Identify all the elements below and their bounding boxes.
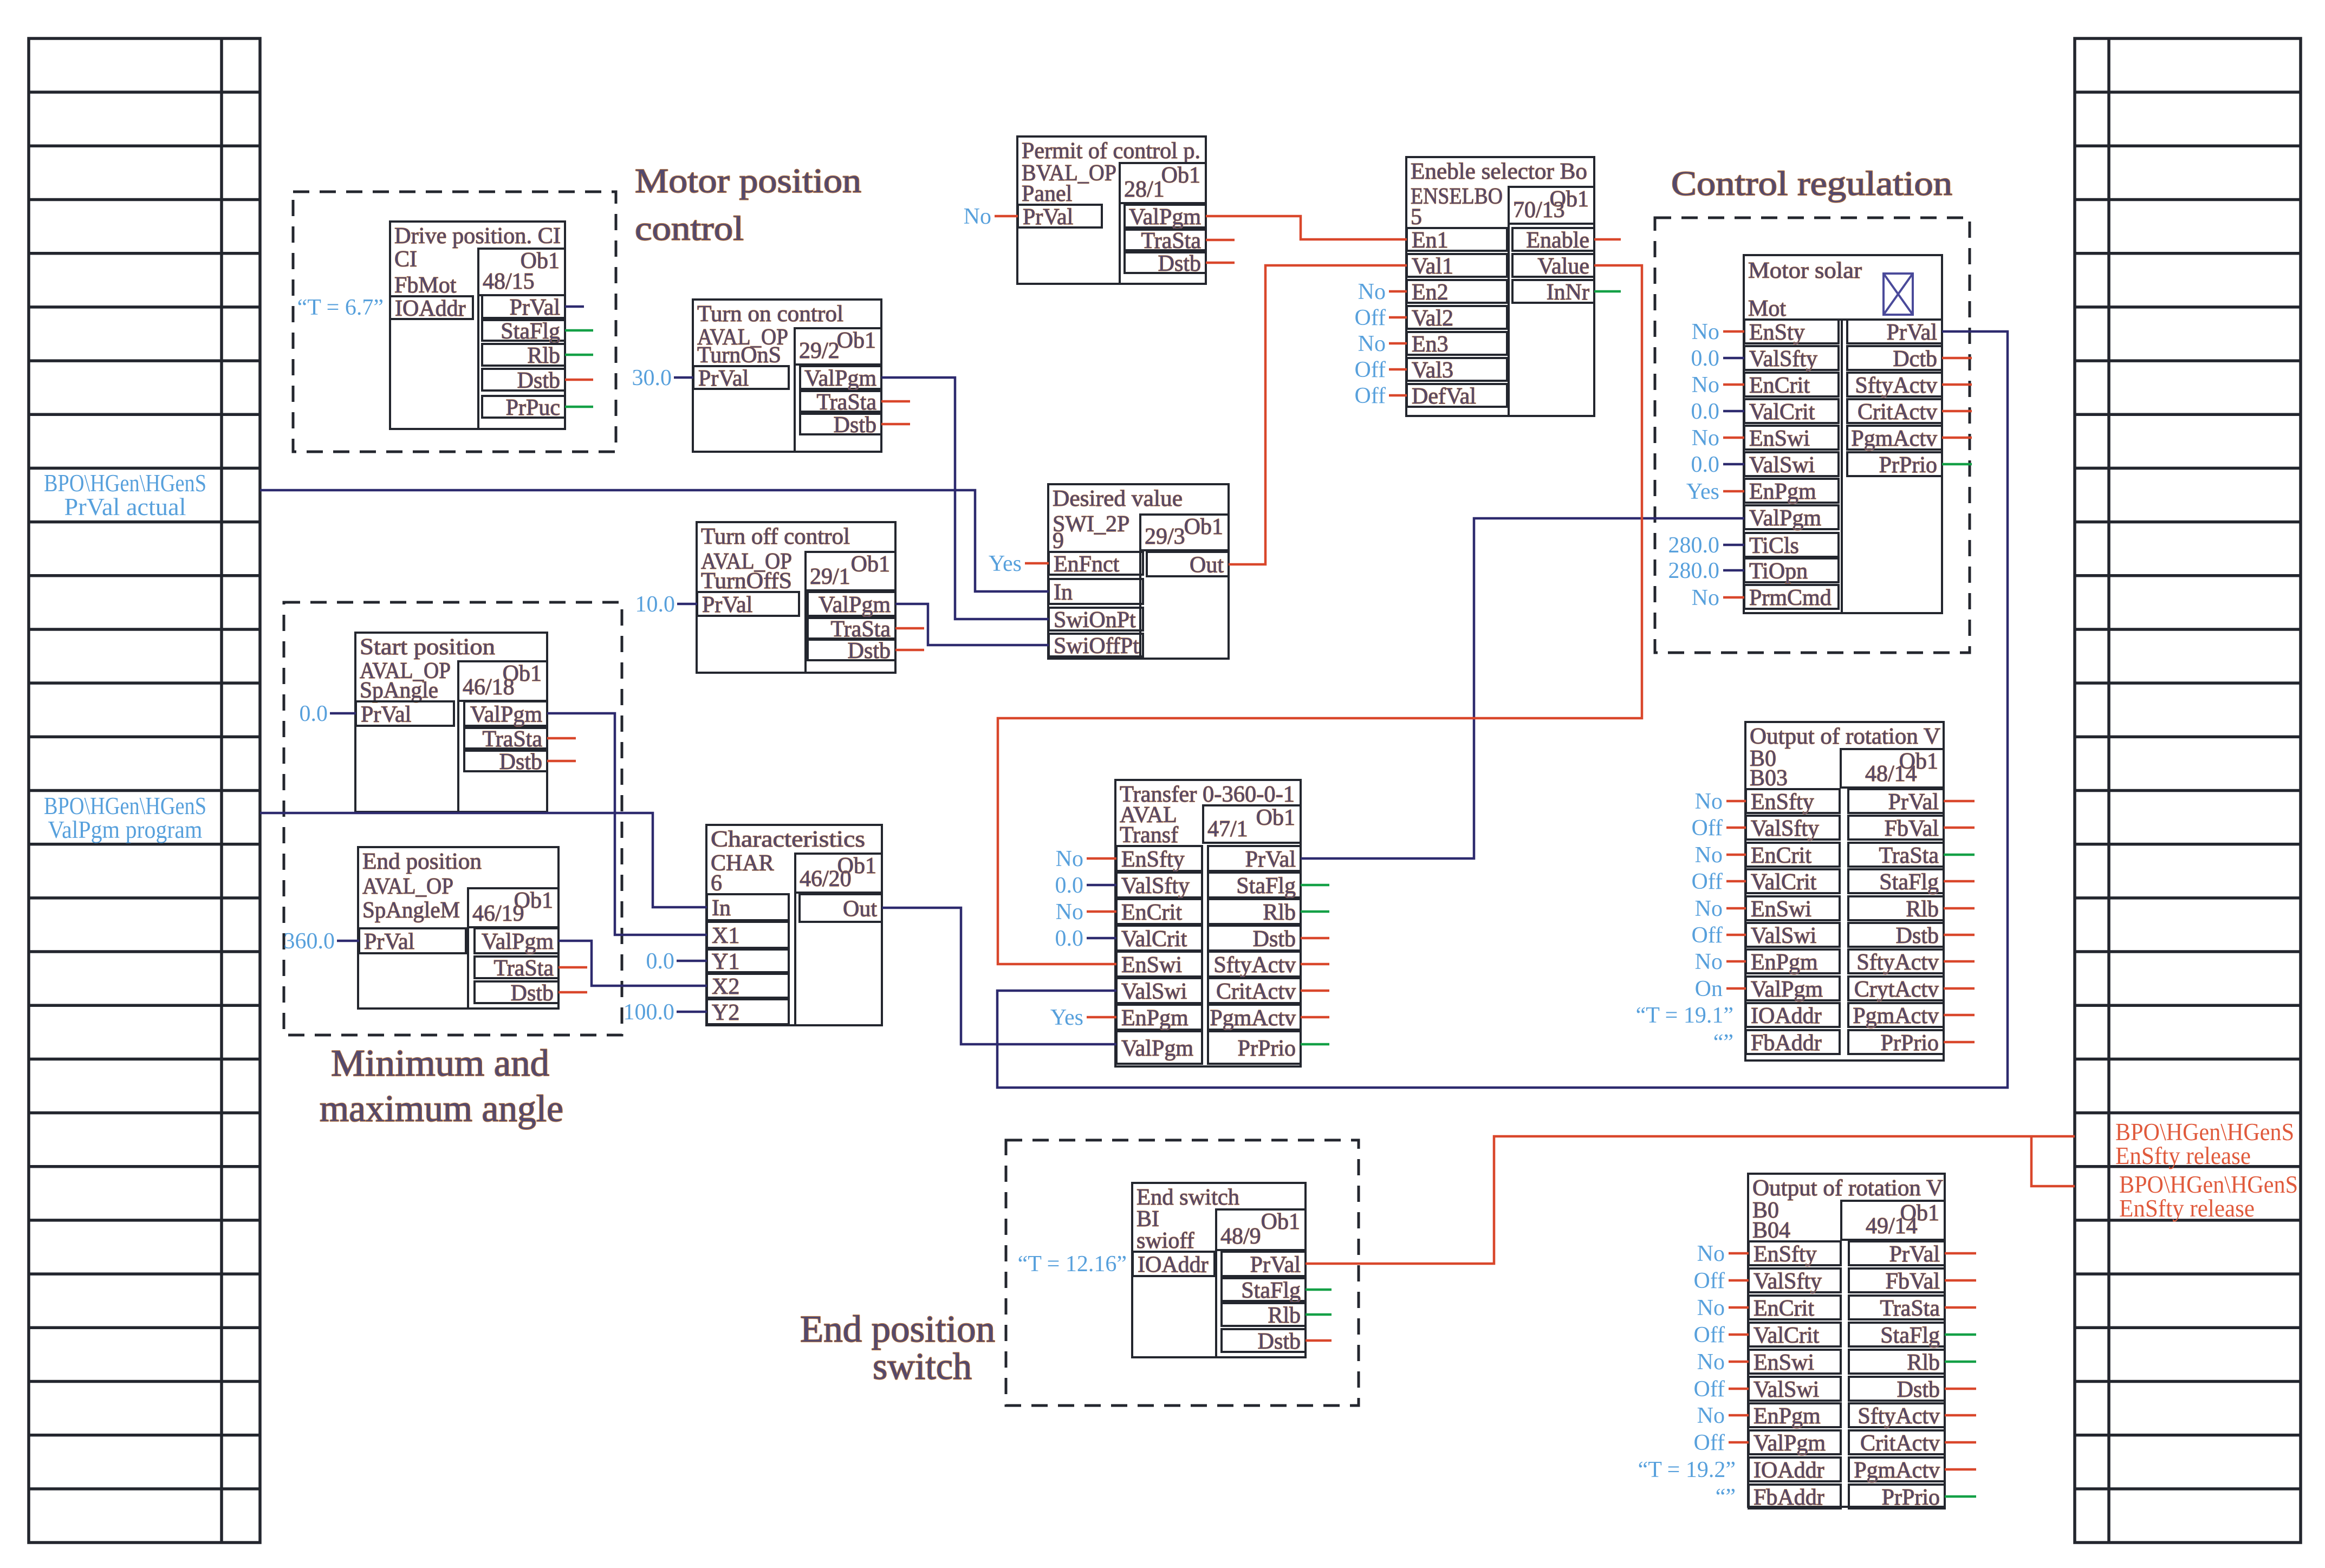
svg-text:IOAddr: IOAddr xyxy=(395,296,466,321)
svg-text:Ob1: Ob1 xyxy=(851,552,890,577)
svg-text:9: 9 xyxy=(1053,529,1064,554)
svg-text:SWI_2P: SWI_2P xyxy=(1053,512,1129,537)
svg-text:70/13: 70/13 xyxy=(1513,198,1565,223)
svg-text:Motor solar: Motor solar xyxy=(1748,258,1862,283)
svg-text:PrVal: PrVal xyxy=(1889,1242,1940,1267)
svg-text:EnCrit: EnCrit xyxy=(1754,1296,1814,1321)
svg-text:Off: Off xyxy=(1693,1323,1725,1348)
wire: Transfer CritActv stub xyxy=(1301,990,1329,992)
svg-text:No: No xyxy=(1697,1403,1725,1428)
svg-text:No: No xyxy=(1697,1296,1725,1320)
svg-text:SftyActv: SftyActv xyxy=(1213,953,1296,978)
svg-text:280.0: 280.0 xyxy=(1668,533,1720,558)
svg-text:Control regulation: Control regulation xyxy=(1671,164,1952,203)
svg-text:29/2: 29/2 xyxy=(799,339,840,363)
svg-text:Transf: Transf xyxy=(1120,823,1178,848)
svg-text:No: No xyxy=(1358,331,1386,356)
svg-text:ValCrit: ValCrit xyxy=(1754,1323,1820,1348)
svg-text:No: No xyxy=(1692,320,1719,344)
svg-text:0.0: 0.0 xyxy=(646,949,675,974)
svg-text:Val2: Val2 xyxy=(1412,306,1453,331)
svg-text:Dctb: Dctb xyxy=(1893,347,1937,372)
svg-text:Desired value: Desired value xyxy=(1053,486,1183,511)
svg-text:Off: Off xyxy=(1354,383,1386,408)
svg-text:ValPgm: ValPgm xyxy=(482,929,554,954)
svg-text:SwiOffPt: SwiOffPt xyxy=(1054,634,1139,659)
svg-text:SftyActv: SftyActv xyxy=(1856,950,1939,975)
node BPO\HGen\HGenS ValPgm program xyxy=(44,792,206,843)
svg-text:Output of rotation V: Output of rotation V xyxy=(1750,724,1940,749)
svg-text:Y2: Y2 xyxy=(712,1000,739,1025)
svg-text:PrVal: PrVal xyxy=(361,702,411,727)
wire: Transfer PrPrio stub xyxy=(1301,1043,1329,1046)
svg-text:100.0: 100.0 xyxy=(624,1000,675,1025)
function block: Characteristics (CHAR 6, Ob1 46/20) xyxy=(706,825,882,1025)
dashed group box: Control regulation xyxy=(1655,218,1970,653)
function block: Turn on control (AVAL_OP TurnOnS, Ob1 29/2) xyxy=(693,300,881,452)
svg-text:Output of rotation V: Output of rotation V xyxy=(1752,1176,1943,1201)
wire: Drive PrPuc stub xyxy=(565,406,593,408)
svg-text:Off: Off xyxy=(1354,357,1386,382)
wire: B03 Rlb stub xyxy=(1944,907,1975,910)
svg-text:Dstb: Dstb xyxy=(1896,923,1939,948)
svg-text:TraSta: TraSta xyxy=(494,956,554,981)
svg-text:No: No xyxy=(964,204,991,229)
svg-text:TiCls: TiCls xyxy=(1749,533,1799,558)
function block: Transfer 0-360-0-1 (AVAL Transf, Ob1 47/1) xyxy=(1115,780,1301,1066)
svg-text:EnSfty: EnSfty xyxy=(1121,847,1185,872)
svg-text:PrPrio: PrPrio xyxy=(1881,1031,1939,1056)
wire: B03 Dstb stub xyxy=(1944,934,1975,936)
wire: B04 StaFlg stub xyxy=(1945,1333,1976,1336)
svg-text:Dstb: Dstb xyxy=(1258,1329,1301,1354)
wire: End Dstb stub xyxy=(558,991,587,994)
wire: BPO PrVal actual -> Desired value In (navy) xyxy=(260,490,1049,591)
svg-text:0.0: 0.0 xyxy=(1055,873,1084,898)
svg-text:No: No xyxy=(1056,900,1083,925)
wire: Turn-on Dstb stub xyxy=(881,423,910,426)
svg-text:ValSwi: ValSwi xyxy=(1749,453,1815,478)
svg-text:Out: Out xyxy=(843,897,877,922)
svg-text:FbMot: FbMot xyxy=(394,273,457,298)
svg-text:PgmActv: PgmActv xyxy=(1854,1458,1940,1483)
svg-text:“T = 12.16”: “T = 12.16” xyxy=(1018,1252,1127,1277)
svg-text:ValSwi: ValSwi xyxy=(1751,923,1816,948)
svg-text:InNr: InNr xyxy=(1547,280,1589,305)
symbol: motor crossed-box icon xyxy=(1884,274,1913,315)
svg-text:0.0: 0.0 xyxy=(1691,346,1720,371)
svg-text:49/14: 49/14 xyxy=(1866,1214,1918,1239)
svg-text:EnSfty release: EnSfty release xyxy=(2115,1142,2251,1169)
wire: Transfer PgmActv stub xyxy=(1301,1016,1329,1019)
svg-text:FbAddr: FbAddr xyxy=(1754,1485,1824,1510)
svg-text:“T = 19.1”: “T = 19.1” xyxy=(1636,1003,1733,1028)
wire: B03 PgmActv stub xyxy=(1944,1014,1975,1017)
svg-text:Yes: Yes xyxy=(1050,1005,1083,1030)
wire: Permit ValPgm -> ENSELBO En1 (red) xyxy=(1206,216,1407,239)
svg-text:PrVal: PrVal xyxy=(1245,847,1296,872)
svg-text:280.0: 280.0 xyxy=(1668,558,1720,583)
wire: Transfer Dstb stub xyxy=(1301,937,1329,940)
wire: B03 TraSta stub xyxy=(1944,854,1975,856)
svg-text:StaFlg: StaFlg xyxy=(1879,870,1939,895)
svg-text:No: No xyxy=(1695,843,1723,868)
svg-text:47/1: 47/1 xyxy=(1207,817,1248,842)
svg-text:SpAngle: SpAngle xyxy=(360,678,438,703)
wire: B04 PgmActv stub xyxy=(1945,1468,1976,1471)
svg-text:TraSta: TraSta xyxy=(1879,843,1939,868)
wire: branch to second EnSfty release row (red) xyxy=(2031,1136,2075,1186)
svg-text:ValPgm program: ValPgm program xyxy=(48,816,203,843)
function block: Output of rotation V (B0 B03, Ob1 48/14) xyxy=(1745,722,1944,1060)
svg-text:TraSta: TraSta xyxy=(817,390,877,415)
svg-text:X1: X1 xyxy=(712,923,739,948)
svg-text:ValPgm: ValPgm xyxy=(804,366,876,391)
svg-text:0.0: 0.0 xyxy=(1691,399,1720,424)
function block: End switch (BI swioff, Ob1 48/9) xyxy=(1132,1183,1306,1357)
svg-text:46/18: 46/18 xyxy=(463,675,515,700)
wire: Drive Rlb stub xyxy=(565,354,593,356)
svg-text:“”: “” xyxy=(1716,1485,1736,1510)
wire: Drive StaFlg stub xyxy=(565,329,593,332)
wire: Permit TraSta stub xyxy=(1206,239,1235,242)
wire: Transfer StaFlg stub xyxy=(1301,884,1329,887)
wire: Motor Dctb stub xyxy=(1942,357,1972,360)
svg-text:maximum angle: maximum angle xyxy=(320,1088,563,1130)
svg-text:FbVal: FbVal xyxy=(1885,816,1939,841)
svg-text:Panel: Panel xyxy=(1022,181,1072,206)
svg-text:ValSfty: ValSfty xyxy=(1121,874,1190,899)
svg-text:EnSwi: EnSwi xyxy=(1749,426,1810,451)
svg-text:Val1: Val1 xyxy=(1412,254,1453,279)
heading: End position switch xyxy=(800,1309,995,1388)
svg-text:ValSwi: ValSwi xyxy=(1121,979,1187,1004)
function block: Permit of control p. (BVAL_OP Panel, Ob1 28/1) xyxy=(1017,136,1206,284)
svg-text:BPO\HGen\HGenS: BPO\HGen\HGenS xyxy=(2119,1171,2298,1198)
wire: B03 PrPrio stub xyxy=(1944,1041,1975,1044)
svg-text:6: 6 xyxy=(711,871,722,896)
svg-text:Enable: Enable xyxy=(1526,228,1589,253)
svg-text:Permit of control p.: Permit of control p. xyxy=(1022,139,1200,164)
svg-text:EnPgm: EnPgm xyxy=(1754,1404,1821,1429)
svg-text:FbAddr: FbAddr xyxy=(1751,1031,1822,1056)
wire: End switch Rlb stub xyxy=(1306,1313,1332,1316)
svg-text:29/1: 29/1 xyxy=(810,564,850,589)
svg-text:Dstb: Dstb xyxy=(511,981,554,1006)
svg-text:46/20: 46/20 xyxy=(800,867,852,892)
svg-text:EnCrit: EnCrit xyxy=(1121,900,1182,925)
svg-text:PrVal actual: PrVal actual xyxy=(64,493,186,521)
svg-text:TiOpn: TiOpn xyxy=(1749,559,1808,584)
function block: Eneble selector Bo (ENSELBO 5, Ob1 70/13) xyxy=(1406,157,1594,416)
right terminal table xyxy=(2075,38,2301,1543)
wire: Motor CritActv stub xyxy=(1942,410,1972,413)
svg-text:ValCrit: ValCrit xyxy=(1751,870,1817,895)
svg-text:PgmActv: PgmActv xyxy=(1853,1004,1939,1029)
wire: B04 Dstb stub xyxy=(1945,1388,1976,1390)
svg-text:PrVal: PrVal xyxy=(698,366,749,391)
svg-text:En3: En3 xyxy=(1412,332,1449,357)
svg-text:EnFnct: EnFnct xyxy=(1054,552,1120,577)
svg-text:SftyActv: SftyActv xyxy=(1858,1404,1940,1429)
svg-text:Start position: Start position xyxy=(360,635,495,660)
wire: End switch Dstb stub xyxy=(1306,1339,1332,1342)
wire: ENSELBO Value -> Transfer EnSwi (red) xyxy=(998,265,1642,964)
svg-text:10.0: 10.0 xyxy=(635,592,676,617)
svg-text:TurnOnS: TurnOnS xyxy=(697,343,781,368)
svg-text:Out: Out xyxy=(1190,553,1224,578)
svg-text:PrVal: PrVal xyxy=(1023,205,1073,230)
svg-text:TurnOffS: TurnOffS xyxy=(701,569,792,594)
svg-text:Ob1: Ob1 xyxy=(1184,515,1223,539)
svg-text:StaFlg: StaFlg xyxy=(501,319,560,344)
wire: ENSELBO InNr stub xyxy=(1594,290,1621,293)
svg-text:BPO\HGen\HGenS: BPO\HGen\HGenS xyxy=(44,470,206,497)
svg-text:In: In xyxy=(712,896,731,921)
svg-text:PrVal: PrVal xyxy=(364,929,414,954)
svg-text:Motor position: Motor position xyxy=(635,161,861,200)
svg-text:30.0: 30.0 xyxy=(632,366,672,391)
svg-text:ValPgm: ValPgm xyxy=(1129,205,1201,230)
svg-text:X2: X2 xyxy=(712,974,739,999)
wire: Transfer SftyActv stub xyxy=(1301,963,1329,966)
svg-text:PrVal: PrVal xyxy=(1887,320,1937,345)
svg-text:Ob1: Ob1 xyxy=(1161,163,1200,188)
svg-text:0.0: 0.0 xyxy=(1691,452,1720,477)
svg-text:IOAddr: IOAddr xyxy=(1754,1458,1824,1483)
svg-text:End position: End position xyxy=(800,1309,995,1350)
svg-text:En1: En1 xyxy=(1412,228,1449,253)
svg-text:EnSfty: EnSfty xyxy=(1751,790,1814,815)
svg-text:ValSfty: ValSfty xyxy=(1751,816,1819,841)
svg-text:PrPuc: PrPuc xyxy=(506,395,560,420)
svg-text:Characteristics: Characteristics xyxy=(711,827,865,852)
svg-text:TraSta: TraSta xyxy=(1141,229,1202,253)
wire: End position ValPgm -> Characteristics X2 (navy) xyxy=(558,941,707,986)
svg-text:Minimum and: Minimum and xyxy=(331,1043,549,1084)
wire: 30.0 to Turn-on PrVal xyxy=(674,376,693,379)
svg-text:0.0: 0.0 xyxy=(1055,926,1084,951)
wire: Turn-off ValPgm -> Desired value SwiOffPt (navy) xyxy=(895,604,1049,645)
wire: Turn-off Dstb stub xyxy=(895,649,924,652)
svg-text:EnSwi: EnSwi xyxy=(1121,953,1182,978)
svg-text:Ob1: Ob1 xyxy=(1256,805,1295,830)
wire: Start position ValPgm -> Characteristics X1 (navy) xyxy=(547,713,707,935)
svg-text:FbVal: FbVal xyxy=(1886,1269,1940,1294)
wire: B04 CritActv stub xyxy=(1945,1441,1976,1444)
wire: B03 SftyActv stub xyxy=(1944,960,1975,963)
function block: Motor solar (Mot) motor output object xyxy=(1744,255,1942,613)
wire: Desired value Out -> ENSELBO Val1 (red) xyxy=(1229,265,1407,564)
svg-text:48/15: 48/15 xyxy=(483,269,535,294)
wire: End switch PrVal -> BPO EnSfty release rows (red) xyxy=(1306,1136,2075,1264)
svg-text:Val3: Val3 xyxy=(1412,358,1453,383)
svg-text:ValSfty: ValSfty xyxy=(1749,347,1817,372)
svg-text:PrPrio: PrPrio xyxy=(1882,1485,1940,1510)
svg-text:StaFlg: StaFlg xyxy=(1241,1278,1301,1303)
svg-text:swioff: swioff xyxy=(1136,1228,1194,1253)
dashed group box: Minimum and maximum angle xyxy=(284,602,622,1035)
wire: Motor solar PrVal -> Transfer ValSwi feedback (navy) xyxy=(997,331,2008,1088)
svg-text:No: No xyxy=(1692,426,1719,451)
function block: End position (AVAL_OP SpAngleM, Ob1 46/19) xyxy=(358,847,558,1009)
wire: Motor PrPrio stub xyxy=(1942,463,1972,466)
wire: Turn-off TraSta stub xyxy=(895,627,924,630)
svg-text:PrVal: PrVal xyxy=(702,593,752,617)
svg-text:PrPrio: PrPrio xyxy=(1238,1036,1296,1061)
wire: End TraSta stub xyxy=(558,966,587,969)
svg-text:SftyActv: SftyActv xyxy=(1855,373,1937,398)
svg-text:0.0: 0.0 xyxy=(300,701,328,726)
svg-text:Off: Off xyxy=(1691,816,1723,841)
svg-text:No: No xyxy=(1697,1350,1725,1375)
svg-text:360.0: 360.0 xyxy=(284,929,335,954)
svg-text:No: No xyxy=(1697,1241,1725,1266)
svg-text:No: No xyxy=(1695,949,1723,974)
svg-text:“”: “” xyxy=(1713,1030,1733,1055)
wire: Drive Dstb stub xyxy=(565,379,593,381)
svg-text:Turn on control: Turn on control xyxy=(697,302,843,327)
svg-text:PrVal: PrVal xyxy=(1888,790,1939,815)
svg-text:CritActv: CritActv xyxy=(1216,979,1296,1004)
svg-text:ValPgm: ValPgm xyxy=(1749,506,1821,531)
node BPO\HGen\HGenS PrVal actual xyxy=(44,470,206,521)
svg-text:StaFlg: StaFlg xyxy=(1880,1323,1940,1348)
svg-text:ValCrit: ValCrit xyxy=(1121,927,1187,952)
svg-text:Off: Off xyxy=(1354,305,1386,330)
svg-text:Y1: Y1 xyxy=(712,949,739,974)
svg-text:End position: End position xyxy=(362,849,482,874)
wire: B03 PrVal stub xyxy=(1944,800,1975,803)
svg-text:EnSty: EnSty xyxy=(1749,320,1805,345)
svg-text:ValPgm: ValPgm xyxy=(819,593,891,617)
svg-text:“T = 6.7”: “T = 6.7” xyxy=(297,295,384,320)
wire: Start TraSta stub xyxy=(547,737,576,740)
svg-text:EnPgm: EnPgm xyxy=(1121,1006,1189,1031)
wire: B03 CrytActv stub xyxy=(1944,987,1975,990)
svg-text:EnSfty: EnSfty xyxy=(1754,1242,1817,1267)
svg-text:In: In xyxy=(1054,580,1073,605)
svg-text:Off: Off xyxy=(1693,1268,1725,1293)
wire: Motor SftyActv stub xyxy=(1942,383,1972,386)
svg-text:ValPgm: ValPgm xyxy=(1121,1036,1193,1061)
svg-text:TraSta: TraSta xyxy=(483,727,543,752)
svg-text:Dstb: Dstb xyxy=(848,639,891,663)
svg-text:Off: Off xyxy=(1693,1430,1725,1455)
svg-text:EnPgm: EnPgm xyxy=(1749,479,1816,504)
svg-text:DefVal: DefVal xyxy=(1412,384,1476,409)
svg-text:EnSfty release: EnSfty release xyxy=(2119,1195,2255,1222)
svg-text:AVAL_OP: AVAL_OP xyxy=(362,874,453,899)
svg-text:ValCrit: ValCrit xyxy=(1749,400,1815,425)
node BPO\HGen\HGenS EnSfty release (row 2) xyxy=(2119,1171,2298,1222)
wire: B03 FbVal stub xyxy=(1944,827,1975,829)
svg-text:29/3: 29/3 xyxy=(1145,524,1185,549)
svg-text:No: No xyxy=(1056,847,1083,871)
svg-text:No: No xyxy=(1692,585,1719,610)
svg-text:TraSta: TraSta xyxy=(1880,1296,1940,1321)
heading: Motor position control xyxy=(635,161,861,248)
dashed group box: End position switch xyxy=(1006,1140,1359,1406)
svg-text:PrPrio: PrPrio xyxy=(1879,453,1937,478)
wire: Characteristics Out -> Transfer ValPgm (navy) xyxy=(882,908,1116,1044)
function block: Output of rotation V (B0 B04, Ob1 49/14) xyxy=(1748,1174,1945,1510)
svg-text:No: No xyxy=(1695,896,1723,921)
svg-text:Drive position. CI: Drive position. CI xyxy=(394,224,561,249)
wire: ENSELBO Enable stub xyxy=(1594,238,1621,241)
svg-text:EnPgm: EnPgm xyxy=(1751,950,1818,975)
function block: Start position (AVAL_OP SpAngle, Ob1 46/18) xyxy=(355,633,547,812)
svg-text:ValPgm: ValPgm xyxy=(1754,1431,1826,1456)
wire: B04 SftyActv stub xyxy=(1945,1414,1976,1417)
svg-text:IOAddr: IOAddr xyxy=(1138,1253,1209,1278)
svg-text:48/14: 48/14 xyxy=(1865,762,1917,786)
svg-text:EnCrit: EnCrit xyxy=(1751,843,1811,868)
svg-text:No: No xyxy=(1695,789,1723,814)
svg-text:Value: Value xyxy=(1537,254,1589,279)
wire: Drive PrVal output stub xyxy=(565,305,584,308)
svg-text:Yes: Yes xyxy=(1686,479,1719,504)
svg-text:SwiOnPt: SwiOnPt xyxy=(1054,608,1136,633)
svg-text:Dstb: Dstb xyxy=(1158,251,1201,276)
svg-text:Eneble selector Bo: Eneble selector Bo xyxy=(1411,159,1587,184)
wire: B03 StaFlg stub xyxy=(1944,880,1975,883)
svg-text:On: On xyxy=(1695,977,1723,1001)
svg-text:48/9: 48/9 xyxy=(1220,1224,1261,1249)
wire: Motor PgmActv stub xyxy=(1942,437,1972,439)
svg-text:ENSELBO: ENSELBO xyxy=(1411,184,1503,209)
svg-text:PrVal: PrVal xyxy=(510,295,560,320)
svg-text:No: No xyxy=(1358,279,1386,304)
wire: Turn-on TraSta stub xyxy=(881,400,910,403)
svg-text:Off: Off xyxy=(1691,869,1723,894)
svg-text:46/19: 46/19 xyxy=(472,901,524,926)
svg-text:Dstb: Dstb xyxy=(517,368,560,393)
function block: Desired value (SWI_2P 9, Ob1 29/3) xyxy=(1048,484,1229,659)
heading: Control regulation xyxy=(1671,164,1952,203)
svg-text:Rlb: Rlb xyxy=(1906,897,1939,922)
svg-text:Dstb: Dstb xyxy=(834,413,876,438)
wire: Permit Dstb stub xyxy=(1206,262,1235,264)
wire: B04 FbVal stub xyxy=(1945,1279,1976,1282)
wire: No to Permit PrVal xyxy=(995,215,1018,218)
svg-text:28/1: 28/1 xyxy=(1124,177,1165,202)
svg-text:Mot: Mot xyxy=(1748,296,1786,321)
wire: Transfer PrVal -> Motor solar ValPgm (navy) xyxy=(1301,518,1744,858)
wire: Start Dstb stub xyxy=(547,760,576,763)
svg-text:CrytActv: CrytActv xyxy=(1854,977,1939,1002)
svg-text:PrVal: PrVal xyxy=(1250,1253,1301,1278)
svg-text:PgmActv: PgmActv xyxy=(1210,1006,1296,1031)
svg-text:EnSwi: EnSwi xyxy=(1754,1350,1814,1375)
svg-text:EnSwi: EnSwi xyxy=(1751,897,1811,922)
svg-text:“T = 19.2”: “T = 19.2” xyxy=(1638,1458,1736,1482)
svg-text:CritActv: CritActv xyxy=(1860,1431,1940,1456)
left terminal table xyxy=(29,38,260,1543)
svg-text:Dstb: Dstb xyxy=(499,750,542,775)
svg-text:BPO\HGen\HGenS: BPO\HGen\HGenS xyxy=(44,792,206,819)
svg-text:ValSwi: ValSwi xyxy=(1754,1377,1819,1402)
svg-text:PgmActv: PgmActv xyxy=(1851,426,1937,451)
svg-text:En2: En2 xyxy=(1412,280,1449,305)
svg-text:IOAddr: IOAddr xyxy=(1751,1004,1822,1029)
svg-text:Off: Off xyxy=(1693,1377,1725,1402)
svg-text:5: 5 xyxy=(1411,205,1422,230)
svg-text:ValPgm: ValPgm xyxy=(470,702,542,727)
svg-text:EnCrit: EnCrit xyxy=(1749,373,1810,398)
wire: B04 PrPrio stub xyxy=(1945,1495,1976,1498)
separator: Motor solar title underline xyxy=(1744,318,1942,321)
